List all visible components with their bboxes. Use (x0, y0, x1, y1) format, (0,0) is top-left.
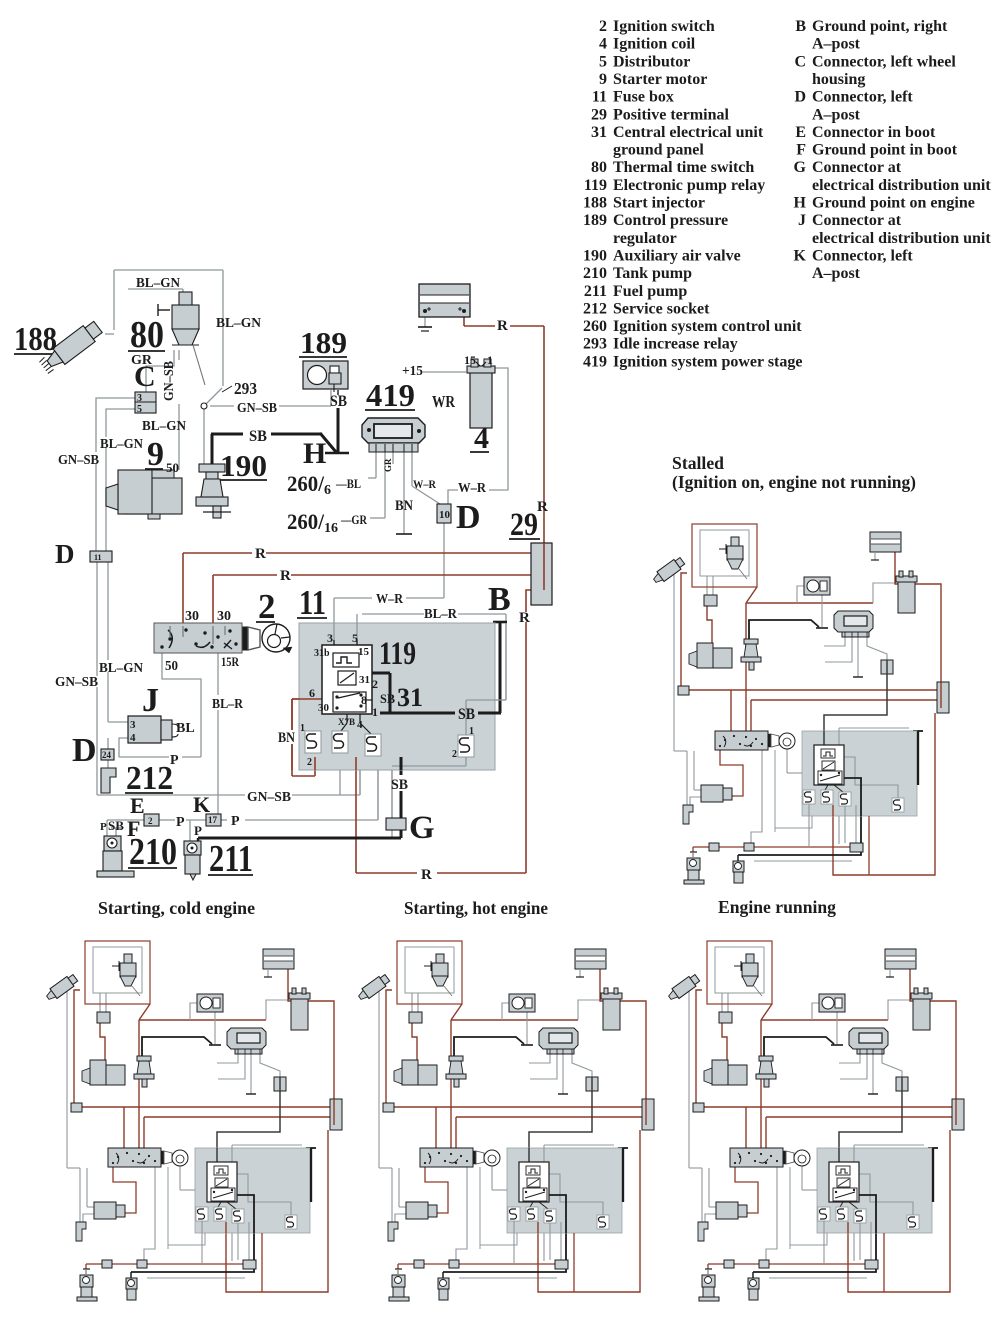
svg-text:D: D (794, 89, 806, 106)
svg-text:210: 210 (583, 265, 607, 282)
svg-text:30: 30 (318, 702, 330, 714)
svg-text:Auxiliary air valve: Auxiliary air valve (613, 247, 741, 264)
svg-text:P: P (170, 753, 179, 768)
svg-text:260: 260 (583, 318, 607, 335)
svg-text:8: 8 (361, 693, 367, 707)
svg-text:Starter motor: Starter motor (613, 71, 707, 88)
svg-text:F: F (796, 142, 806, 159)
svg-text:BN: BN (278, 730, 295, 746)
svg-text:D: D (55, 539, 75, 569)
svg-text:419: 419 (366, 377, 415, 413)
svg-text:SB: SB (249, 428, 267, 445)
svg-text:Ignition system control unit: Ignition system control unit (613, 318, 802, 335)
svg-text:R: R (497, 318, 508, 334)
svg-text:260/: 260/ (287, 471, 325, 496)
svg-text:188: 188 (14, 321, 57, 358)
svg-text:GN–SB: GN–SB (58, 453, 99, 468)
svg-text:190: 190 (220, 448, 267, 483)
svg-text:E: E (130, 793, 145, 818)
svg-text:Fuel pump: Fuel pump (613, 283, 687, 300)
svg-text:Tank pump: Tank pump (613, 265, 692, 282)
svg-text:Control pressure: Control pressure (613, 212, 728, 229)
svg-text:SB: SB (391, 777, 408, 793)
svg-text:R: R (255, 546, 266, 562)
svg-text:Positive terminal: Positive terminal (613, 106, 730, 123)
svg-text:9: 9 (147, 436, 164, 473)
svg-text:P: P (100, 821, 107, 833)
svg-text:BL–GN: BL–GN (136, 276, 180, 291)
svg-text:W–R: W–R (458, 481, 487, 496)
svg-text:188: 188 (583, 195, 607, 212)
svg-text:Ignition coil: Ignition coil (613, 36, 696, 53)
svg-text:4: 4 (599, 36, 607, 53)
svg-text:—GR: —GR (340, 512, 367, 527)
svg-text:11: 11 (94, 553, 102, 562)
svg-text:Connector, left: Connector, left (812, 89, 913, 106)
svg-text:R: R (421, 867, 432, 883)
svg-text:419: 419 (583, 353, 607, 370)
svg-text:Connector, left wheel: Connector, left wheel (812, 53, 956, 70)
svg-text:E: E (795, 124, 806, 141)
svg-text:R: R (280, 568, 291, 584)
svg-text:50: 50 (166, 460, 179, 475)
svg-text:G: G (409, 810, 435, 846)
svg-text:K: K (193, 792, 210, 817)
svg-text:WR: WR (432, 392, 456, 411)
svg-text:P: P (194, 823, 202, 838)
svg-text:—BL: —BL (335, 476, 361, 491)
svg-text:J: J (798, 212, 806, 229)
svg-text:D: D (72, 732, 97, 769)
svg-text:189: 189 (583, 212, 607, 229)
svg-text:260/: 260/ (287, 509, 325, 534)
svg-text:4: 4 (357, 719, 363, 731)
svg-text:GR: GR (131, 353, 153, 368)
svg-text:A–post: A–post (812, 36, 861, 53)
svg-text:1: 1 (372, 705, 378, 719)
svg-text:Distributor: Distributor (613, 53, 690, 70)
svg-text:A–post: A–post (812, 106, 861, 123)
svg-text:10: 10 (439, 509, 451, 521)
svg-text:Ground point on engine: Ground point on engine (812, 195, 975, 212)
svg-text:5: 5 (137, 404, 142, 415)
svg-text:31b: 31b (314, 648, 330, 659)
svg-text:X7B: X7B (338, 717, 355, 727)
svg-text:R: R (519, 610, 530, 626)
svg-text:SB: SB (108, 818, 124, 833)
svg-text:A–post: A–post (812, 265, 861, 282)
svg-text:ground panel: ground panel (613, 142, 704, 159)
svg-text:29: 29 (510, 507, 538, 543)
svg-text:Connector in boot: Connector in boot (812, 124, 936, 141)
svg-text:electrical distribution unit: electrical distribution unit (812, 230, 991, 247)
svg-text:4: 4 (130, 732, 136, 744)
svg-text:293: 293 (583, 336, 607, 353)
svg-text:SB: SB (458, 706, 475, 723)
svg-text:Ground point in boot: Ground point in boot (812, 142, 958, 159)
svg-text:G: G (794, 159, 807, 176)
svg-text:R: R (537, 499, 548, 515)
svg-text:11: 11 (592, 89, 607, 106)
svg-text:+15: +15 (402, 364, 423, 379)
svg-text:190: 190 (583, 247, 607, 264)
svg-text:5: 5 (599, 53, 607, 70)
svg-text:Connector at: Connector at (812, 212, 902, 229)
svg-text:189: 189 (300, 325, 347, 360)
svg-text:119: 119 (379, 636, 416, 672)
svg-text:Electronic pump relay: Electronic pump relay (613, 177, 765, 194)
svg-text:11: 11 (299, 583, 326, 622)
svg-text:regulator: regulator (613, 230, 677, 247)
svg-text:H: H (794, 195, 807, 212)
svg-text:31: 31 (359, 674, 370, 686)
svg-text:electrical distribution unit: electrical distribution unit (812, 177, 991, 194)
svg-text:29: 29 (591, 106, 607, 123)
svg-text:211: 211 (584, 283, 607, 300)
svg-text:2: 2 (148, 816, 153, 826)
svg-text:GN–SB: GN–SB (55, 675, 98, 690)
svg-text:3: 3 (130, 719, 136, 731)
svg-text:212: 212 (126, 760, 173, 797)
svg-text:211: 211 (209, 838, 253, 880)
svg-text:Starting, hot engine: Starting, hot engine (404, 898, 548, 918)
svg-text:D: D (456, 499, 481, 536)
svg-text:B: B (795, 18, 806, 35)
svg-text:housing: housing (812, 71, 865, 88)
svg-text:6: 6 (309, 686, 315, 700)
svg-text:3: 3 (327, 631, 333, 645)
svg-text:BL: BL (176, 721, 195, 736)
svg-text:P: P (176, 815, 185, 830)
svg-text:2: 2 (452, 749, 457, 760)
svg-text:2: 2 (307, 757, 312, 768)
svg-text:SB: SB (380, 691, 395, 706)
svg-text:212: 212 (583, 300, 607, 317)
svg-text:Starting, cold engine: Starting, cold engine (98, 898, 255, 918)
svg-text:1: 1 (487, 353, 493, 367)
svg-text:GN–SB: GN–SB (162, 361, 177, 401)
svg-text:16: 16 (324, 521, 338, 536)
svg-text:W–R: W–R (376, 592, 404, 607)
svg-text:BL–GN: BL–GN (99, 661, 143, 676)
svg-text:BL–GN: BL–GN (142, 419, 186, 434)
svg-text:15: 15 (358, 646, 370, 658)
svg-text:BL–R: BL–R (424, 607, 458, 622)
svg-text:2: 2 (599, 18, 607, 35)
svg-text:30: 30 (217, 609, 231, 624)
svg-text:24: 24 (102, 750, 112, 760)
svg-text:GR: GR (383, 458, 393, 472)
svg-text:5: 5 (352, 631, 358, 645)
svg-text:GN–SB: GN–SB (237, 401, 277, 416)
svg-text:Connector, left: Connector, left (812, 247, 913, 264)
svg-text:293: 293 (234, 379, 257, 398)
svg-text:2: 2 (258, 587, 276, 626)
svg-text:K: K (794, 247, 807, 264)
svg-text:B: B (488, 581, 511, 618)
svg-text:31: 31 (397, 683, 423, 712)
svg-text:6: 6 (324, 483, 331, 498)
svg-text:80: 80 (591, 159, 607, 176)
svg-text:J: J (142, 682, 159, 719)
svg-text:P: P (231, 814, 240, 829)
svg-text:15: 15 (464, 353, 476, 367)
svg-text:50: 50 (165, 659, 178, 674)
svg-text:BL–GN: BL–GN (100, 437, 143, 452)
svg-text:9: 9 (599, 71, 607, 88)
svg-text:210: 210 (129, 831, 177, 873)
svg-text:1: 1 (300, 723, 305, 734)
svg-text:C: C (794, 53, 806, 70)
svg-text:BL–R: BL–R (212, 697, 244, 712)
svg-text:3: 3 (137, 393, 142, 404)
svg-text:4: 4 (474, 422, 489, 455)
svg-text:H: H (303, 437, 326, 470)
svg-text:Connector at: Connector at (812, 159, 902, 176)
svg-text:119: 119 (584, 177, 607, 194)
svg-text:1: 1 (469, 726, 474, 737)
svg-text:GN–SB: GN–SB (247, 790, 291, 805)
svg-text:Stalled: Stalled (672, 453, 724, 473)
svg-text:Start injector: Start injector (613, 195, 705, 212)
svg-text:SB: SB (330, 393, 347, 410)
svg-text:15R: 15R (221, 654, 239, 669)
svg-text:Ignition system power stage: Ignition system power stage (613, 353, 802, 370)
svg-text:(Ignition on, engine not runni: (Ignition on, engine not running) (672, 472, 916, 493)
svg-text:BL–GN: BL–GN (216, 316, 261, 331)
svg-text:Idle increase relay: Idle increase relay (613, 336, 738, 353)
svg-text:2: 2 (372, 677, 378, 691)
svg-text:W–R: W–R (413, 477, 436, 491)
svg-text:Thermal time switch: Thermal time switch (613, 159, 754, 176)
svg-text:Central electrical unit: Central electrical unit (613, 124, 764, 141)
svg-text:Engine running: Engine running (718, 897, 836, 917)
svg-text:31: 31 (591, 124, 607, 141)
svg-text:BN: BN (395, 498, 413, 514)
svg-text:30: 30 (185, 609, 199, 624)
svg-text:80: 80 (130, 314, 164, 356)
svg-text:Ignition switch: Ignition switch (613, 18, 715, 35)
svg-text:17: 17 (208, 815, 218, 825)
svg-text:Fuse box: Fuse box (613, 89, 674, 106)
svg-text:Service socket: Service socket (613, 300, 710, 317)
svg-text:Ground point, right: Ground point, right (812, 18, 948, 35)
